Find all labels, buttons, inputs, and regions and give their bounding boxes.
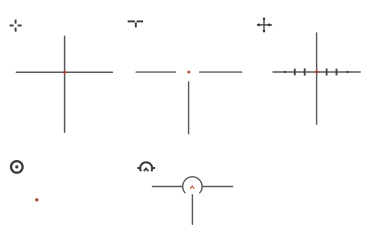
reticle 3: illuminated center dot (316, 71, 318, 73)
reticle 4: red-dot halo (35, 198, 39, 202)
reticle 3: mil-dot vertical wire (316, 33, 318, 124)
reticle 5: circle with bottom gap (183, 177, 202, 193)
reticle 3: mil-dot horizontal wire (273, 71, 360, 73)
reticle 4: red-dot (35, 198, 38, 201)
reticle 3: illuminated center dot halo (315, 70, 319, 74)
reticle 5: lower post wire (191, 195, 193, 225)
reticle 2: left horizontal wire (136, 71, 175, 73)
reticle 2: illuminated aiming dot (188, 71, 190, 73)
reticle 1: illuminated center dot halo (63, 70, 67, 74)
reticle 3: left outer mil dot (284, 71, 286, 73)
reticle 2: right horizontal wire (200, 71, 242, 73)
icon: mini mil-dot cross (reticle 3 thumbnail) (257, 18, 272, 33)
reticle 1: illuminated center dot (63, 71, 66, 74)
icon: mini circle-chevron (reticle 5 thumbnail) (137, 162, 155, 171)
reticle 5: illuminated chevron (190, 186, 194, 189)
reticle 3: left tick 2 (294, 69, 296, 74)
reticle 3: right outer mil dot (346, 71, 348, 73)
reticle 3: right tick 1 (326, 69, 328, 75)
reticle 1: fine crosshair vertical wire (64, 36, 66, 132)
icon: mini T-post (reticle 2 thumbnail) (128, 21, 143, 27)
reticle 3: left tick 1 (304, 69, 306, 75)
reticle 5: left horizontal wire (152, 186, 182, 188)
reticle 5: right horizontal wire (202, 186, 232, 188)
icon: mini fine-crosshair (reticle 1 thumbnail) (10, 20, 22, 32)
reticle 1: fine crosshair horizontal wire (16, 71, 112, 73)
reticle 2: illuminated aiming dot halo (187, 70, 191, 74)
reticle 3: right tick 2 (336, 69, 338, 74)
reticle 2: lower post wire (188, 82, 190, 134)
icon: mini red-dot sight ring (reticle 4 thumbnail) (11, 161, 23, 173)
